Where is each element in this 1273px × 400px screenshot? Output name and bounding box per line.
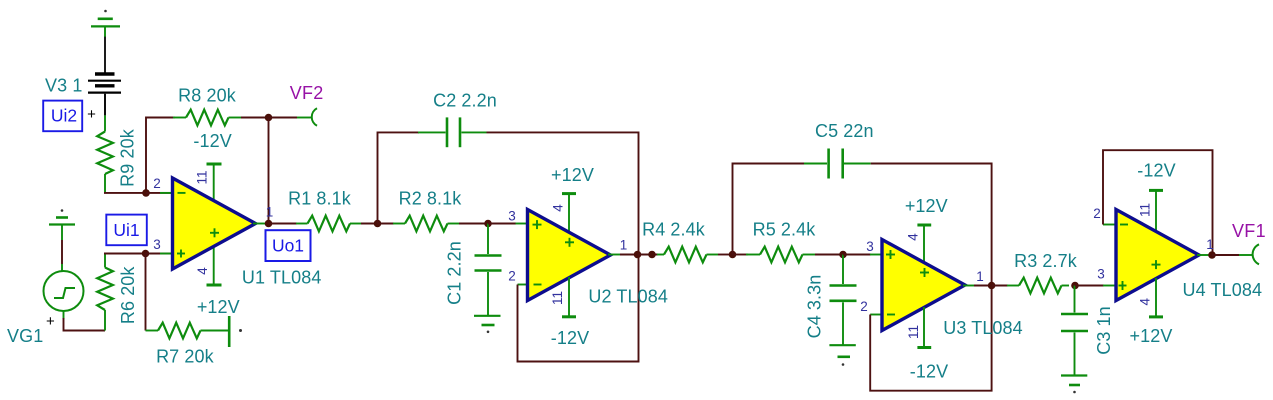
svg-text:11: 11	[195, 170, 210, 184]
svg-text:11: 11	[906, 325, 921, 339]
voltage pin VF2 arc	[312, 108, 317, 126]
wire U1 output stub	[253, 223, 265, 225]
node U4 output	[1208, 251, 1216, 259]
wire R9 bottom to pin2 node	[104, 192, 146, 194]
svg-text:V3 1: V3 1	[45, 76, 82, 96]
svg-text:+12V: +12V	[905, 196, 948, 216]
svg-text:Ui1: Ui1	[113, 220, 139, 240]
wire VG1 bottom to R6	[64, 318, 106, 331]
capacitor C4 3.3n (vertical)	[830, 255, 857, 346]
svg-text:VF2: VF2	[290, 83, 324, 103]
resistor R7 20k	[146, 323, 229, 339]
wire R5 to C4 node	[815, 254, 843, 256]
node R2/C1/U2pin3 junction	[484, 220, 492, 228]
resistor R3 2.7k	[1007, 278, 1069, 294]
svg-text:4: 4	[195, 267, 210, 275]
op-amp U1 TL084	[173, 178, 256, 269]
supply T-bar pin 4 U4	[1149, 278, 1163, 317]
svg-text:U2 TL084: U2 TL084	[588, 287, 668, 307]
svg-text:C3 1n: C3 1n	[1094, 306, 1114, 355]
svg-text:+: +	[87, 106, 96, 123]
svg-text:R3 2.7k: R3 2.7k	[1014, 251, 1078, 271]
ground (above source VG1)	[49, 209, 75, 240]
resistor R1 8.1k	[296, 216, 361, 232]
wire pin3 stub U1	[146, 253, 173, 255]
svg-text:+12V: +12V	[197, 297, 240, 317]
wire R1R2 node to R2	[378, 223, 395, 225]
op-amp U2 TL084	[528, 210, 611, 301]
wire U3 output to R3	[992, 285, 1008, 287]
svg-text:C4 3.3n: C4 3.3n	[805, 275, 825, 339]
supply T-bar pin 11 U1	[207, 164, 222, 202]
svg-text:R1 8.1k: R1 8.1k	[288, 189, 352, 209]
wire R4 to node	[718, 254, 733, 256]
svg-text:U1 TL084: U1 TL084	[242, 268, 322, 288]
op-amp U4 TL084	[1116, 210, 1199, 301]
svg-text:R8 20k: R8 20k	[178, 86, 237, 106]
svg-text:11: 11	[1138, 203, 1153, 217]
wire C3 node to U4 pin3 stub	[1075, 285, 1104, 287]
wire U4 output stub	[1197, 254, 1209, 256]
node R4/R5/C5 junction	[729, 251, 737, 259]
svg-text:3: 3	[153, 237, 161, 252]
resistor R2 8.1k	[393, 216, 460, 232]
svg-text:Uo1: Uo1	[272, 236, 304, 256]
capacitor C1 2.2n (vertical)	[475, 224, 502, 316]
wire C2 right to U2 output column	[487, 132, 639, 254]
wire node to VF2 pin	[269, 117, 313, 119]
svg-text:R4 2.4k: R4 2.4k	[642, 220, 706, 240]
svg-text:2: 2	[860, 299, 868, 314]
supply T-bar pin 11 U2	[562, 277, 576, 317]
wire U2 output stub	[608, 254, 622, 256]
wire U4 pin2 feedback loop	[1103, 150, 1213, 255]
svg-text:3: 3	[866, 239, 874, 254]
svg-text:R9 20k: R9 20k	[118, 128, 138, 187]
svg-text:C1 2.2n: C1 2.2n	[445, 241, 465, 305]
svg-text:R2 8.1k: R2 8.1k	[399, 189, 463, 209]
wire U1 output to R1	[269, 223, 298, 225]
svg-text:VG1: VG1	[7, 326, 43, 346]
resistor R4 2.4k	[657, 247, 718, 263]
wire R6 top to pin3 node	[104, 253, 146, 255]
node junction right of U2 output	[648, 251, 656, 259]
supply T-bar pin 4 U1	[207, 246, 222, 285]
supply T-bar pin 11 U4	[1149, 190, 1163, 232]
svg-text:Ui2: Ui2	[51, 106, 77, 126]
voltage pin VF1 arc	[1253, 244, 1259, 264]
wire U2 pin2 feedback loop	[518, 255, 639, 362]
node pin3 junction	[142, 250, 150, 258]
ground (below C1)	[474, 316, 501, 333]
probe label box Ui1	[106, 215, 147, 246]
wire C4 node to U3 pin3 stub	[843, 254, 871, 256]
supply T-bar pin 11 U3	[917, 307, 931, 348]
wire VF2 node down to U1 output	[268, 118, 270, 224]
node R1/R2/C2 junction	[374, 220, 382, 228]
svg-text:+: +	[46, 313, 55, 330]
svg-text:4: 4	[1138, 297, 1153, 305]
wire C5 node to R5	[733, 254, 749, 256]
node R8/VF2 junction	[265, 114, 273, 122]
svg-text:-12V: -12V	[1137, 161, 1175, 181]
resistor R6 20k (vertical)	[97, 254, 113, 331]
svg-text:+12V: +12V	[551, 165, 594, 185]
supply pin +12V (R7)	[229, 316, 242, 347]
svg-text:3: 3	[1097, 267, 1105, 282]
svg-text:11: 11	[550, 291, 565, 305]
source VG1 (circle with step waveform)	[44, 264, 84, 319]
wire R2 to C1 node	[459, 223, 488, 225]
wire node up to C2 row	[378, 132, 420, 223]
probe label box Uo1	[266, 230, 311, 261]
svg-text:+12V: +12V	[1130, 326, 1173, 346]
svg-text:1: 1	[620, 238, 628, 253]
capacitor C5 22n	[804, 149, 871, 179]
capacitor C3 1n (vertical)	[1061, 286, 1088, 376]
svg-text:R5 2.4k: R5 2.4k	[753, 220, 817, 240]
supply T-bar pin 4 U2	[562, 194, 576, 232]
svg-text:2: 2	[508, 269, 516, 284]
svg-text:U3 TL084: U3 TL084	[943, 318, 1023, 338]
svg-text:R6 20k: R6 20k	[118, 266, 138, 325]
node pin2 junction	[142, 189, 150, 197]
svg-text:2: 2	[1093, 206, 1101, 221]
node U1 output	[265, 220, 273, 228]
wire between output dots	[638, 254, 659, 256]
supply T-bar pin 4 U3	[917, 225, 931, 263]
svg-text:1: 1	[1206, 237, 1214, 252]
svg-text:3: 3	[508, 209, 516, 224]
battery V3	[88, 74, 121, 115]
wire R8 to VF2 node	[241, 117, 269, 119]
wire U4 output to VF1 pin	[1212, 254, 1253, 256]
svg-text:2: 2	[153, 176, 161, 191]
svg-text:-12V: -12V	[910, 362, 948, 382]
svg-text:R7 20k: R7 20k	[156, 347, 215, 367]
node U3 output	[988, 282, 996, 290]
wire battery top stem	[104, 37, 106, 73]
capacitor C2 2.2n	[418, 117, 487, 147]
svg-text:4: 4	[906, 233, 921, 241]
svg-text:-12V: -12V	[551, 328, 589, 348]
resistor R8 20k	[173, 110, 241, 126]
svg-text:1: 1	[266, 205, 274, 220]
wire pin2 stub U1	[146, 192, 173, 194]
ground (below C4)	[829, 345, 855, 366]
wire C1 node to U2 pin3 stub	[488, 223, 516, 225]
svg-text:4: 4	[551, 204, 566, 212]
wire C5 right to U3 output column	[871, 164, 992, 286]
node U2 output	[634, 251, 642, 259]
wire R1 to node	[361, 223, 378, 225]
resistor R5 2.4k	[746, 247, 815, 263]
node R5/C4/U3pin3 junction	[839, 251, 847, 259]
svg-text:C5 22n: C5 22n	[815, 121, 874, 141]
ground (below C3)	[1061, 376, 1087, 394]
svg-text:C2 2.2n: C2 2.2n	[433, 91, 497, 111]
wire U3 pin2 feedback loop	[870, 286, 991, 391]
ground (above battery V3)	[91, 10, 120, 37]
op-amp U3 TL084	[882, 240, 965, 331]
wire VG1 top stem	[61, 240, 63, 264]
wire node up to C5 row	[733, 164, 806, 255]
resistor R9 20k (vertical)	[97, 115, 113, 192]
node R3/C3/U4pin3 junction	[1071, 282, 1079, 290]
wire U3 output stub	[963, 285, 975, 287]
probe label box Ui2	[43, 101, 82, 132]
svg-text:1: 1	[976, 269, 984, 284]
wire pin3 node down to R7	[145, 254, 147, 331]
wire pin2 node up to R8 row	[146, 118, 175, 193]
svg-text:-12V: -12V	[193, 131, 231, 151]
svg-text:VF1: VF1	[1232, 221, 1266, 241]
svg-text:U4 TL084: U4 TL084	[1183, 280, 1263, 300]
